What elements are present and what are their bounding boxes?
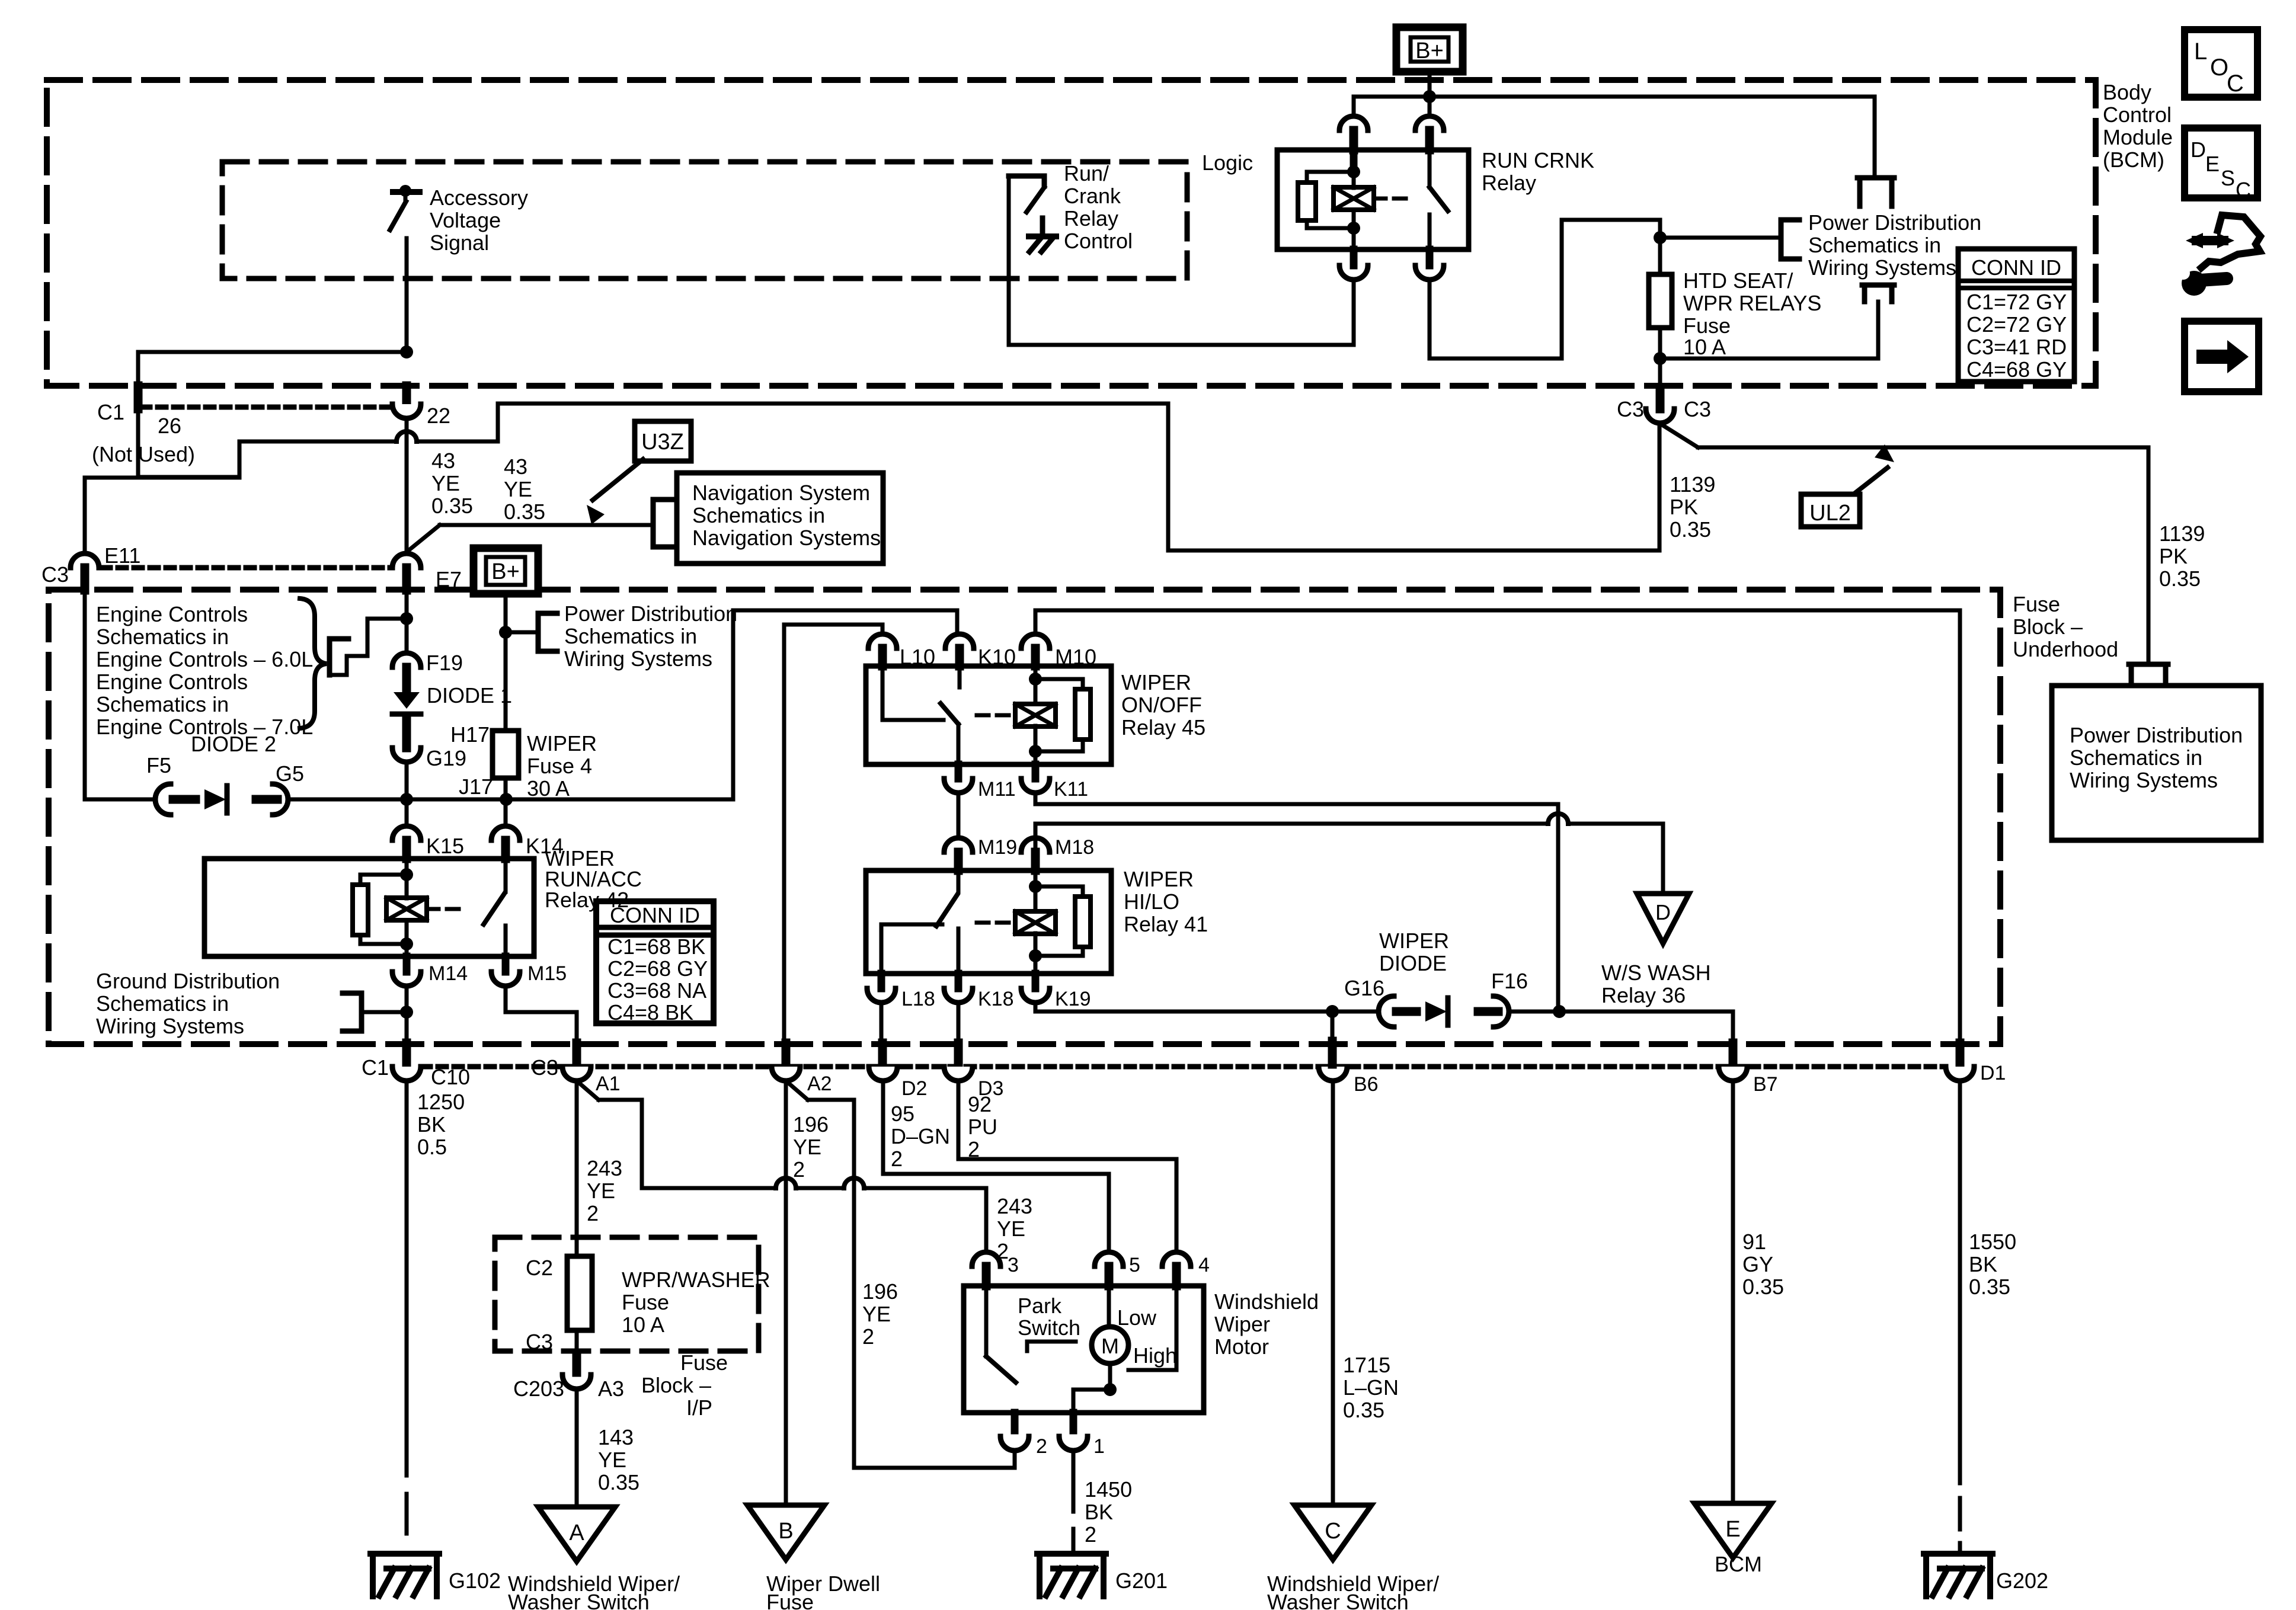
svg-text:Relay 42: Relay 42 bbox=[545, 888, 629, 912]
svg-text:E11: E11 bbox=[104, 543, 140, 568]
svg-text:1139: 1139 bbox=[2159, 521, 2205, 546]
svg-text:RUN CRNK: RUN CRNK bbox=[1482, 148, 1594, 172]
svg-text:Block –: Block – bbox=[641, 1373, 711, 1397]
svg-text:0.35: 0.35 bbox=[431, 494, 473, 518]
svg-text:Wiring Systems: Wiring Systems bbox=[2070, 768, 2218, 792]
svg-text:F19: F19 bbox=[426, 651, 463, 675]
svg-text:B: B bbox=[778, 1519, 793, 1544]
svg-text:91: 91 bbox=[1742, 1230, 1766, 1254]
svg-text:10 A: 10 A bbox=[1683, 335, 1726, 359]
svg-text:22: 22 bbox=[427, 404, 450, 428]
svg-text:L–GN: L–GN bbox=[1343, 1375, 1399, 1400]
svg-text:C3: C3 bbox=[41, 562, 69, 587]
svg-text:Switch: Switch bbox=[1018, 1315, 1080, 1340]
svg-text:C1=72 GY: C1=72 GY bbox=[1966, 290, 2067, 314]
svg-text:ON/OFF: ON/OFF bbox=[1121, 693, 1202, 717]
svg-text:DIODE 2: DIODE 2 bbox=[191, 732, 276, 756]
svg-text:C: C bbox=[2236, 178, 2251, 202]
svg-text:Engine Controls – 6.0L: Engine Controls – 6.0L bbox=[96, 647, 313, 671]
svg-text:0.35: 0.35 bbox=[1670, 517, 1711, 542]
svg-text:HTD SEAT/: HTD SEAT/ bbox=[1683, 268, 1793, 293]
svg-text:S: S bbox=[2221, 166, 2235, 190]
svg-text:High: High bbox=[1133, 1343, 1177, 1368]
svg-text:C2=68 GY: C2=68 GY bbox=[607, 956, 708, 981]
svg-text:Wiring Systems: Wiring Systems bbox=[96, 1014, 244, 1038]
svg-text:E7: E7 bbox=[436, 567, 462, 591]
svg-text:Relay: Relay bbox=[1482, 171, 1536, 195]
svg-text:Windshield: Windshield bbox=[1214, 1289, 1319, 1314]
svg-text:3: 3 bbox=[1008, 1254, 1019, 1276]
svg-text:WPR/WASHER: WPR/WASHER bbox=[622, 1267, 770, 1292]
svg-text:Fuse: Fuse bbox=[1683, 313, 1731, 338]
svg-text:C: C bbox=[1325, 1519, 1341, 1544]
svg-text:M18: M18 bbox=[1055, 836, 1094, 859]
svg-text:Power Distribution: Power Distribution bbox=[564, 601, 737, 626]
svg-text:Engine Controls: Engine Controls bbox=[96, 670, 248, 694]
svg-text:43: 43 bbox=[504, 454, 527, 479]
svg-text:243: 243 bbox=[587, 1156, 622, 1180]
svg-text:YE: YE bbox=[504, 477, 532, 501]
svg-text:Schematics in: Schematics in bbox=[692, 503, 825, 527]
svg-text:C3: C3 bbox=[526, 1330, 553, 1354]
svg-text:Fuse: Fuse bbox=[680, 1350, 728, 1375]
svg-text:M10: M10 bbox=[1055, 645, 1096, 669]
svg-text:F5: F5 bbox=[146, 753, 171, 777]
svg-text:B+: B+ bbox=[491, 559, 520, 584]
svg-text:Block –: Block – bbox=[2013, 614, 2083, 639]
svg-text:G19: G19 bbox=[426, 746, 466, 770]
svg-text:W/S WASH: W/S WASH bbox=[1601, 961, 1711, 985]
svg-text:Crank: Crank bbox=[1064, 184, 1121, 208]
svg-text:A1: A1 bbox=[596, 1073, 621, 1095]
svg-text:Schematics in: Schematics in bbox=[564, 624, 697, 648]
svg-text:M: M bbox=[1101, 1334, 1119, 1358]
svg-text:Fuse: Fuse bbox=[622, 1290, 669, 1314]
svg-text:CONN ID: CONN ID bbox=[1971, 255, 2061, 280]
svg-text:C1: C1 bbox=[97, 400, 124, 424]
svg-text:2: 2 bbox=[862, 1324, 874, 1349]
svg-text:Run/: Run/ bbox=[1064, 161, 1109, 185]
svg-text:L10: L10 bbox=[900, 645, 935, 669]
svg-text:O: O bbox=[2210, 55, 2228, 81]
svg-text:143: 143 bbox=[598, 1425, 634, 1449]
svg-text:(BCM): (BCM) bbox=[2103, 148, 2164, 172]
svg-text:Wiper: Wiper bbox=[1214, 1312, 1270, 1336]
svg-text:C4=8 BK: C4=8 BK bbox=[607, 1000, 693, 1025]
svg-text:D: D bbox=[1655, 900, 1671, 924]
svg-text:C3: C3 bbox=[1617, 397, 1644, 421]
svg-text:C3=68 NA: C3=68 NA bbox=[607, 978, 706, 1003]
svg-text:G202: G202 bbox=[1996, 1569, 2048, 1593]
svg-text:0.35: 0.35 bbox=[1969, 1275, 2010, 1299]
svg-text:1450: 1450 bbox=[1085, 1477, 1132, 1502]
svg-text:L: L bbox=[2194, 39, 2207, 65]
svg-text:PK: PK bbox=[2159, 544, 2188, 568]
svg-text:YE: YE bbox=[997, 1217, 1025, 1241]
svg-text:D–GN: D–GN bbox=[891, 1124, 950, 1148]
svg-text:Motor: Motor bbox=[1214, 1334, 1269, 1359]
svg-text:Power Distribution: Power Distribution bbox=[2070, 723, 2243, 747]
svg-text:2: 2 bbox=[1036, 1435, 1047, 1458]
svg-text:GY: GY bbox=[1742, 1252, 1773, 1276]
svg-text:K19: K19 bbox=[1055, 988, 1091, 1010]
svg-text:M19: M19 bbox=[978, 836, 1017, 859]
svg-text:1250: 1250 bbox=[417, 1090, 465, 1114]
svg-text:Power Distribution: Power Distribution bbox=[1808, 210, 1981, 235]
svg-text:Schematics in: Schematics in bbox=[96, 625, 229, 649]
svg-text:2: 2 bbox=[587, 1201, 599, 1225]
svg-text:C3: C3 bbox=[1684, 397, 1711, 421]
svg-text:Washer Switch: Washer Switch bbox=[1267, 1590, 1409, 1610]
svg-text:Logic: Logic bbox=[1202, 151, 1253, 175]
svg-text:M14: M14 bbox=[428, 962, 468, 985]
svg-text:C4=68 GY: C4=68 GY bbox=[1966, 357, 2067, 382]
svg-text:1: 1 bbox=[1093, 1435, 1105, 1458]
svg-text:B+: B+ bbox=[1415, 39, 1444, 63]
svg-text:BK: BK bbox=[1969, 1252, 1997, 1276]
svg-text:Ground Distribution: Ground Distribution bbox=[96, 969, 280, 993]
svg-text:2: 2 bbox=[1085, 1522, 1096, 1547]
svg-text:K15: K15 bbox=[426, 834, 464, 858]
svg-text:243: 243 bbox=[997, 1194, 1032, 1218]
svg-text:WPR RELAYS: WPR RELAYS bbox=[1683, 291, 1821, 315]
svg-text:0.35: 0.35 bbox=[504, 500, 545, 524]
svg-text:PU: PU bbox=[968, 1115, 997, 1139]
svg-text:2: 2 bbox=[891, 1147, 903, 1171]
svg-text:Control: Control bbox=[2103, 103, 2172, 127]
svg-text:E: E bbox=[2205, 152, 2220, 176]
svg-text:Engine Controls: Engine Controls bbox=[96, 602, 248, 626]
svg-text:UL2: UL2 bbox=[1809, 501, 1851, 526]
svg-text:G5: G5 bbox=[276, 761, 304, 786]
svg-text:2: 2 bbox=[968, 1137, 980, 1161]
svg-text:G102: G102 bbox=[449, 1569, 501, 1593]
svg-text:DIODE 1: DIODE 1 bbox=[427, 683, 512, 708]
svg-text:K10: K10 bbox=[978, 645, 1016, 669]
svg-text:YE: YE bbox=[587, 1179, 615, 1203]
svg-text:0.5: 0.5 bbox=[417, 1135, 447, 1159]
svg-text:BK: BK bbox=[417, 1112, 446, 1137]
svg-text:30 A: 30 A bbox=[527, 776, 570, 801]
svg-text:1715: 1715 bbox=[1343, 1353, 1390, 1377]
svg-text:Washer Switch: Washer Switch bbox=[508, 1590, 650, 1610]
svg-text:YE: YE bbox=[793, 1135, 821, 1159]
svg-text:DIODE: DIODE bbox=[1379, 951, 1447, 975]
svg-text:Control: Control bbox=[1064, 229, 1133, 253]
svg-text:A2: A2 bbox=[807, 1073, 832, 1095]
svg-text:(Not Used): (Not Used) bbox=[92, 442, 195, 466]
svg-text:B6: B6 bbox=[1354, 1073, 1379, 1096]
svg-text:Fuse: Fuse bbox=[2013, 592, 2060, 616]
svg-text:43: 43 bbox=[431, 449, 455, 473]
svg-text:I/P: I/P bbox=[686, 1395, 712, 1420]
svg-text:H17: H17 bbox=[450, 722, 490, 747]
svg-text:Low: Low bbox=[1117, 1305, 1157, 1330]
svg-text:Accessory: Accessory bbox=[430, 185, 528, 210]
svg-text:C3=41 RD: C3=41 RD bbox=[1966, 335, 2067, 359]
svg-text:PK: PK bbox=[1670, 495, 1698, 519]
svg-text:J17: J17 bbox=[459, 774, 493, 799]
svg-text:B7: B7 bbox=[1753, 1073, 1778, 1096]
svg-text:C10: C10 bbox=[431, 1065, 470, 1089]
svg-text:C203: C203 bbox=[513, 1377, 564, 1401]
svg-text:D2: D2 bbox=[901, 1077, 927, 1100]
svg-text:M15: M15 bbox=[527, 962, 567, 985]
svg-text:Schematics in: Schematics in bbox=[96, 991, 229, 1016]
svg-text:Relay 45: Relay 45 bbox=[1121, 715, 1205, 740]
svg-text:Relay 36: Relay 36 bbox=[1601, 983, 1686, 1007]
svg-text:Relay 41: Relay 41 bbox=[1124, 912, 1208, 936]
svg-text:WIPER: WIPER bbox=[1379, 929, 1449, 953]
svg-text:Module: Module bbox=[2103, 125, 2173, 149]
svg-text:HI/LO: HI/LO bbox=[1124, 889, 1179, 914]
svg-text:Schematics in: Schematics in bbox=[2070, 745, 2202, 770]
svg-text:A: A bbox=[569, 1521, 584, 1545]
svg-text:Wiring Systems: Wiring Systems bbox=[1808, 255, 1956, 280]
svg-text:10 A: 10 A bbox=[622, 1313, 664, 1337]
svg-text:WIPER: WIPER bbox=[1121, 670, 1191, 694]
svg-text:YE: YE bbox=[431, 471, 460, 495]
svg-text:196: 196 bbox=[793, 1112, 829, 1137]
svg-text:Park: Park bbox=[1018, 1294, 1062, 1318]
svg-text:C2: C2 bbox=[526, 1256, 553, 1280]
svg-text:BCM: BCM bbox=[1715, 1552, 1762, 1576]
svg-text:YE: YE bbox=[862, 1302, 891, 1326]
svg-text:Schematics in: Schematics in bbox=[1808, 233, 1941, 257]
svg-text:C3: C3 bbox=[531, 1055, 558, 1080]
svg-text:0.35: 0.35 bbox=[598, 1470, 639, 1494]
svg-text:196: 196 bbox=[862, 1279, 898, 1304]
svg-text:WIPER: WIPER bbox=[1124, 867, 1194, 891]
svg-text:C2=72 GY: C2=72 GY bbox=[1966, 312, 2067, 337]
svg-text:1550: 1550 bbox=[1969, 1230, 2016, 1254]
svg-text:D: D bbox=[2191, 137, 2206, 162]
svg-text:E: E bbox=[1725, 1517, 1740, 1542]
svg-text:BK: BK bbox=[1085, 1500, 1113, 1524]
svg-text:M11: M11 bbox=[978, 778, 1016, 801]
svg-text:Navigation System: Navigation System bbox=[692, 481, 870, 505]
svg-text:YE: YE bbox=[598, 1448, 626, 1472]
svg-text:Voltage: Voltage bbox=[430, 208, 501, 232]
svg-text:D1: D1 bbox=[1980, 1062, 2006, 1084]
svg-text:Relay: Relay bbox=[1064, 206, 1118, 231]
svg-text:K18: K18 bbox=[978, 988, 1014, 1010]
svg-text:Underhood: Underhood bbox=[2013, 637, 2118, 661]
svg-text:A3: A3 bbox=[598, 1377, 624, 1401]
svg-text:0.35: 0.35 bbox=[1742, 1275, 1784, 1299]
svg-text:C: C bbox=[2227, 71, 2244, 97]
svg-text:K11: K11 bbox=[1054, 778, 1088, 801]
svg-text:F16: F16 bbox=[1491, 969, 1528, 993]
svg-text:G16: G16 bbox=[1344, 976, 1384, 1000]
svg-text:C1=68 BK: C1=68 BK bbox=[607, 934, 705, 959]
svg-text:Wiring Systems: Wiring Systems bbox=[564, 646, 712, 671]
svg-text:U3Z: U3Z bbox=[641, 430, 684, 454]
svg-text:Navigation Systems: Navigation Systems bbox=[692, 526, 881, 550]
svg-text:C1: C1 bbox=[362, 1055, 389, 1080]
svg-text:G201: G201 bbox=[1115, 1569, 1168, 1593]
svg-text:2: 2 bbox=[793, 1157, 805, 1182]
svg-text:Fuse: Fuse bbox=[766, 1590, 814, 1610]
svg-text:26: 26 bbox=[158, 414, 181, 438]
svg-text:Schematics in: Schematics in bbox=[96, 692, 229, 716]
svg-text:0.35: 0.35 bbox=[2159, 566, 2201, 591]
svg-text:WIPER: WIPER bbox=[527, 731, 597, 756]
svg-text:92: 92 bbox=[968, 1092, 992, 1116]
svg-text:5: 5 bbox=[1129, 1254, 1140, 1276]
svg-text:Signal: Signal bbox=[430, 231, 489, 255]
svg-text:0.35: 0.35 bbox=[1343, 1398, 1384, 1422]
svg-text:Body: Body bbox=[2103, 80, 2151, 104]
svg-text:1139: 1139 bbox=[1670, 472, 1715, 497]
svg-text:4: 4 bbox=[1198, 1254, 1210, 1276]
svg-text:L18: L18 bbox=[901, 988, 935, 1010]
svg-text:95: 95 bbox=[891, 1102, 914, 1126]
svg-text:Fuse 4: Fuse 4 bbox=[527, 754, 592, 778]
